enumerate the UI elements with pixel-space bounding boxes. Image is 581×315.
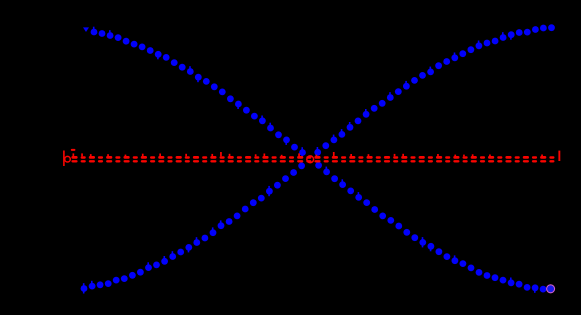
blue descending branch series (filled circle markers) [83, 27, 546, 293]
red baseline series: double-dash circle markers with small error ticks [71, 152, 554, 163]
red lone vertical tick at right end of baseline [558, 151, 560, 161]
magenta ring under final descending marker [547, 285, 555, 293]
final descending blue marker [547, 285, 554, 292]
red left-end errorbar: vertical bar with open circle marker [64, 151, 70, 167]
red open-circle marker at the curve crossing [307, 156, 314, 163]
red floating dash above baseline at far left [71, 149, 76, 151]
blue ascending branch series (filled circle markers) [81, 24, 555, 293]
